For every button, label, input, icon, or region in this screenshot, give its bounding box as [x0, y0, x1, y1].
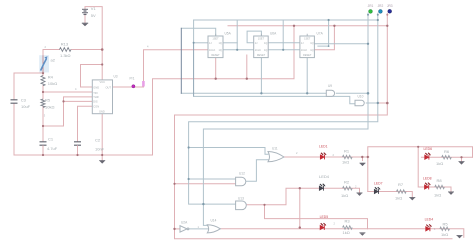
svg-text:5V: 5V: [91, 13, 96, 18]
svg-text:LED4: LED4: [319, 174, 330, 179]
svg-text:1Q: 1Q: [219, 49, 222, 52]
svg-text:1kΩ: 1kΩ: [341, 193, 348, 198]
svg-text:1SET: 1SET: [212, 37, 219, 40]
svg-text:LED1: LED1: [319, 145, 328, 149]
svg-text:U2A: U2A: [181, 221, 188, 225]
svg-text:TRI: TRI: [93, 91, 97, 95]
svg-text:RESET: RESET: [211, 54, 220, 57]
svg-text:LED7: LED7: [374, 181, 383, 185]
svg-text:1SET: 1SET: [258, 37, 265, 40]
svg-text:R7: R7: [398, 182, 404, 187]
svg-text:R13: R13: [61, 42, 69, 47]
svg-text:4.7uF: 4.7uF: [47, 146, 58, 151]
svg-text:1Q: 1Q: [310, 49, 313, 52]
svg-text:R1: R1: [344, 149, 350, 154]
svg-text:1Q: 1Q: [219, 42, 222, 45]
svg-text:10kΩ: 10kΩ: [48, 81, 57, 86]
svg-text:10nF: 10nF: [95, 147, 105, 152]
svg-text:Pr1: Pr1: [130, 77, 135, 81]
svg-text:10uF: 10uF: [21, 104, 31, 109]
svg-text:C3: C3: [21, 97, 27, 102]
svg-text:1kΩ: 1kΩ: [441, 232, 448, 237]
svg-text:LED6: LED6: [424, 147, 433, 151]
svg-text:10kΩ: 10kΩ: [45, 104, 54, 109]
svg-text:U3: U3: [114, 75, 118, 79]
svg-text:1kΩ: 1kΩ: [436, 161, 443, 166]
svg-text:R6: R6: [444, 149, 450, 154]
svg-text:U6A: U6A: [270, 32, 277, 36]
svg-text:1CLK: 1CLK: [209, 49, 216, 52]
svg-text:U13: U13: [238, 197, 244, 201]
svg-text:1CLK: 1CLK: [255, 49, 262, 52]
svg-text:1SET: 1SET: [304, 37, 311, 40]
svg-text:U9: U9: [328, 84, 332, 88]
svg-text:RESET: RESET: [257, 54, 266, 57]
svg-text:JR3: JR3: [387, 4, 393, 8]
svg-text:V1: V1: [91, 6, 97, 11]
svg-text:U11: U11: [272, 147, 278, 151]
svg-text:U5A: U5A: [225, 32, 232, 36]
svg-text:1kΩ: 1kΩ: [343, 230, 350, 235]
svg-text:1.3kΩ: 1.3kΩ: [60, 53, 71, 58]
svg-text:U14: U14: [211, 219, 217, 223]
svg-text:THR: THR: [93, 95, 98, 99]
svg-text:1kΩ: 1kΩ: [395, 196, 402, 201]
svg-text:R8: R8: [437, 178, 443, 183]
svg-text:GND: GND: [99, 110, 105, 114]
svg-text:1kΩ: 1kΩ: [434, 193, 441, 198]
svg-text:a2: a2: [51, 58, 56, 63]
svg-text:JR1: JR1: [368, 4, 374, 8]
svg-text:R5: R5: [443, 221, 449, 226]
svg-text:C2: C2: [95, 138, 101, 143]
svg-text:1Q: 1Q: [310, 42, 313, 45]
svg-text:1CLK: 1CLK: [301, 49, 308, 52]
svg-text:R3: R3: [345, 218, 351, 223]
svg-text:U10: U10: [358, 95, 364, 99]
svg-text:GND: GND: [93, 85, 99, 89]
svg-text:LED5: LED5: [320, 215, 329, 219]
svg-text:C1: C1: [48, 137, 54, 142]
svg-text:1Q: 1Q: [264, 42, 267, 45]
svg-text:JR2: JR2: [378, 4, 384, 8]
svg-text:VCC: VCC: [100, 80, 106, 84]
svg-text:RESET: RESET: [303, 54, 312, 57]
svg-text:U7A: U7A: [317, 32, 324, 36]
svg-text:1Q: 1Q: [264, 49, 267, 52]
svg-text:OUT: OUT: [106, 85, 112, 89]
svg-text:LED4: LED4: [425, 218, 434, 222]
svg-text:R4: R4: [48, 74, 54, 79]
svg-text:LED8: LED8: [423, 176, 432, 180]
svg-text:U12: U12: [239, 172, 245, 176]
svg-text:R5: R5: [45, 97, 51, 102]
svg-text:CON: CON: [93, 104, 99, 108]
svg-text:1kΩ: 1kΩ: [342, 160, 349, 165]
svg-text:DIS: DIS: [93, 100, 98, 104]
svg-text:R2: R2: [344, 179, 350, 184]
